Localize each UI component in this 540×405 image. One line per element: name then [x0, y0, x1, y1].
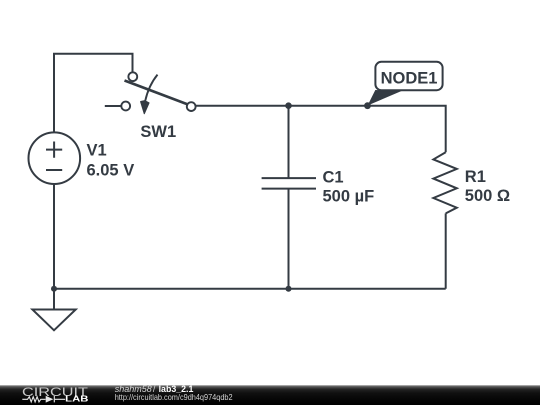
svg-text:NODE1: NODE1 [381, 69, 438, 87]
svg-text:V1: V1 [87, 141, 107, 159]
svg-text:http://circuitlab.com/c9dh4q97: http://circuitlab.com/c9dh4q974qdb2 [115, 393, 233, 402]
svg-text:500 Ω: 500 Ω [465, 187, 510, 205]
svg-text:500 µF: 500 µF [323, 188, 375, 206]
svg-text:LAB: LAB [65, 394, 88, 403]
svg-text:SW1: SW1 [140, 123, 176, 141]
svg-text:R1: R1 [465, 168, 486, 186]
svg-text:C1: C1 [323, 168, 344, 186]
svg-text:6.05 V: 6.05 V [87, 162, 135, 180]
